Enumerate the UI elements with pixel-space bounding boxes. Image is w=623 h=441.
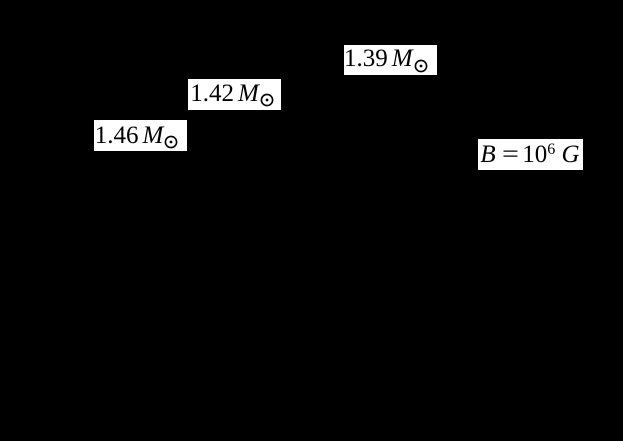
label mass 1.39 Msun: [344, 45, 437, 75]
label mass 1.46 Msun: [94, 120, 187, 150]
label mass 1.42 Msun: [188, 79, 281, 110]
label magnetic field B = 10^6 G: [478, 139, 583, 170]
